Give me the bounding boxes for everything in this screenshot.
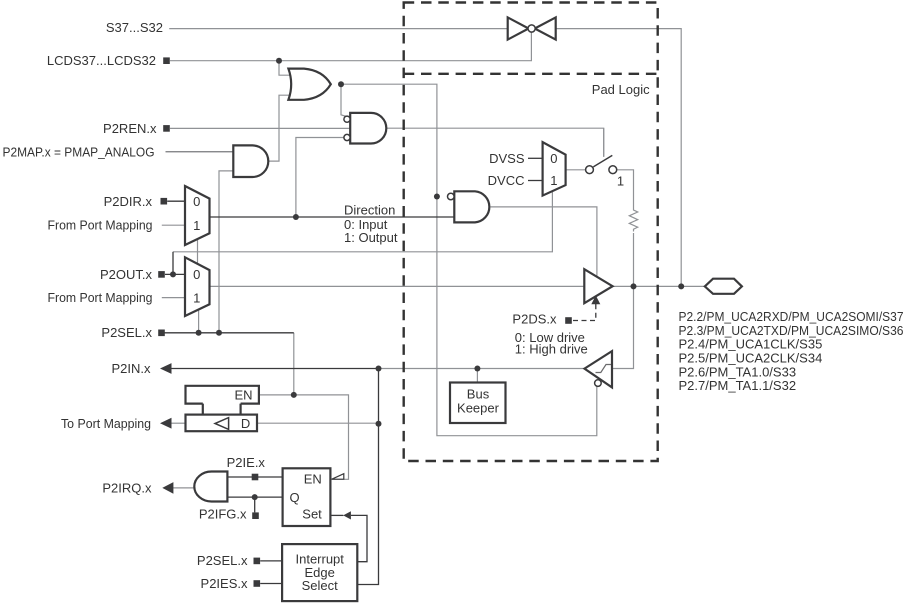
svg-text:P2.2/PM_UCA2RXD/PM_UCA2SOMI/S3: P2.2/PM_UCA2RXD/PM_UCA2SOMI/S37 — [679, 309, 904, 324]
svg-text:1: 1 — [193, 290, 200, 305]
svg-text:P2IFG.x: P2IFG.x — [199, 506, 247, 521]
svg-text:P2MAP.x = PMAP_ANALOG: P2MAP.x = PMAP_ANALOG — [3, 144, 155, 159]
svg-text:Keeper: Keeper — [457, 400, 500, 415]
svg-text:Set: Set — [302, 507, 322, 522]
svg-text:Q: Q — [290, 490, 300, 505]
svg-text:1: High drive: 1: High drive — [515, 342, 588, 357]
svg-text:0: 0 — [193, 194, 200, 209]
svg-text:Pad Logic: Pad Logic — [592, 82, 650, 97]
svg-text:Bus: Bus — [467, 387, 490, 402]
svg-text:P2.7/PM_TA1.1/S32: P2.7/PM_TA1.1/S32 — [679, 378, 797, 393]
svg-text:LCDS37...LCDS32: LCDS37...LCDS32 — [47, 53, 156, 68]
svg-text:0: 0 — [550, 151, 557, 166]
svg-text:P2IES.x: P2IES.x — [201, 576, 248, 591]
svg-text:P2IN.x: P2IN.x — [111, 361, 151, 376]
svg-text:1: 1 — [617, 174, 624, 189]
svg-text:P2IRQ.x: P2IRQ.x — [102, 481, 152, 496]
svg-text:P2DIR.x: P2DIR.x — [104, 194, 153, 209]
svg-text:P2REN.x: P2REN.x — [103, 121, 157, 136]
svg-text:Select: Select — [302, 578, 339, 593]
svg-text:D: D — [241, 416, 250, 431]
svg-text:From Port Mapping: From Port Mapping — [48, 218, 153, 233]
svg-text:1: 1 — [193, 218, 200, 233]
svg-text:EN: EN — [304, 471, 322, 486]
svg-text:0: 0 — [193, 267, 200, 282]
svg-text:Direction: Direction — [344, 203, 395, 218]
svg-text:S37...S32: S37...S32 — [106, 20, 163, 35]
svg-text:P2.5/PM_UCA2CLK/S34: P2.5/PM_UCA2CLK/S34 — [679, 351, 823, 366]
svg-text:P2SEL.x: P2SEL.x — [101, 325, 152, 340]
svg-text:DVSS: DVSS — [489, 151, 525, 166]
svg-text:P2DS.x: P2DS.x — [512, 312, 557, 327]
svg-text:From Port Mapping: From Port Mapping — [48, 290, 153, 305]
svg-text:EN: EN — [234, 388, 252, 403]
svg-text:P2.3/PM_UCA2TXD/PM_UCA2SIMO/S3: P2.3/PM_UCA2TXD/PM_UCA2SIMO/S36 — [679, 323, 904, 338]
svg-text:P2IE.x: P2IE.x — [227, 455, 266, 470]
svg-text:P2.4/PM_UCA1CLK/S35: P2.4/PM_UCA1CLK/S35 — [679, 337, 823, 352]
svg-text:To Port Mapping: To Port Mapping — [61, 416, 151, 431]
svg-text:P2OUT.x: P2OUT.x — [100, 267, 153, 282]
svg-text:DVCC: DVCC — [488, 173, 525, 188]
svg-text:1: Output: 1: Output — [344, 230, 398, 245]
svg-text:1: 1 — [550, 173, 557, 188]
svg-text:P2SEL.x: P2SEL.x — [197, 553, 248, 568]
